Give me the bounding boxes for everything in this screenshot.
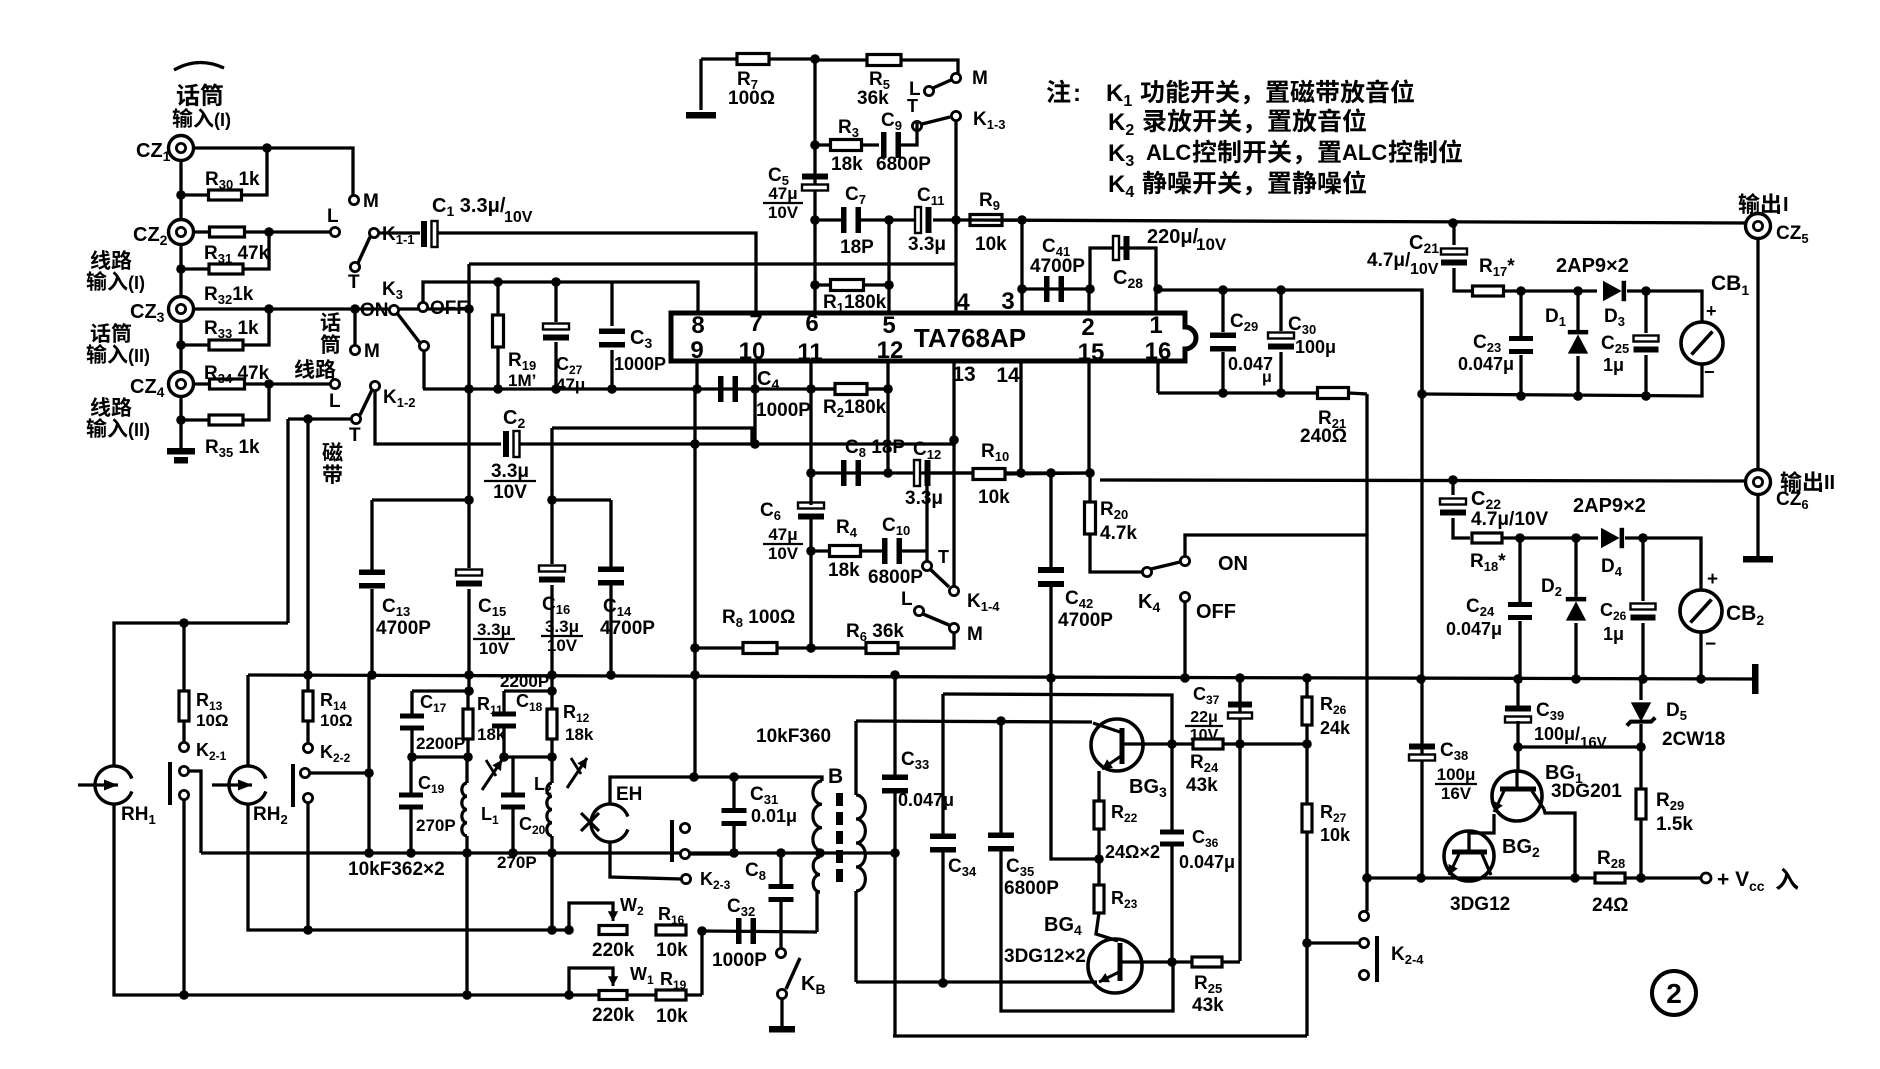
- label R6: [846, 621, 904, 644]
- svg-text:3: 3: [1001, 288, 1014, 315]
- svg-text:10V: 10V: [493, 482, 527, 503]
- wire C39 line: [1518, 745, 1641, 748]
- svg-text:R8 100Ω: R8 100Ω: [722, 607, 795, 630]
- wire BG4 emitter: [856, 980, 1097, 983]
- note line2: [1108, 108, 1366, 139]
- label mic input II: [87, 323, 150, 366]
- svg-text:1000P: 1000P: [614, 354, 666, 374]
- capacitor C23: [1509, 291, 1533, 396]
- resistor R9: [956, 215, 1022, 226]
- svg-text:10kF362×2: 10kF362×2: [348, 859, 445, 880]
- switch K2-1: [170, 742, 189, 805]
- wire pin13: [952, 361, 955, 591]
- wire: [699, 59, 702, 110]
- svg-text:OFF: OFF: [1196, 601, 1236, 623]
- svg-text:(II): (II): [128, 420, 150, 440]
- svg-text:14: 14: [996, 364, 1020, 387]
- svg-text:R2180k: R2180k: [823, 397, 887, 420]
- svg-text:4.7μ/: 4.7μ/: [1367, 250, 1411, 271]
- capacitor C34: [930, 694, 956, 983]
- switch KB: [776, 948, 800, 998]
- label CZ6: [1776, 489, 1809, 512]
- resistor R10: [930, 469, 1089, 480]
- resistor R11: [463, 691, 473, 757]
- wire 290 line: [1156, 290, 1422, 394]
- diode D3: [1521, 281, 1646, 301]
- node: [890, 670, 1312, 683]
- svg-text:1: 1: [1149, 312, 1162, 339]
- label CB1: [1711, 272, 1749, 298]
- note line4: [1108, 170, 1366, 201]
- decoration arc: [174, 62, 224, 70]
- resistor R27: [1302, 744, 1312, 943]
- node: [547, 686, 557, 696]
- svg-text:36k: 36k: [857, 88, 889, 109]
- node: [806, 546, 816, 556]
- svg-text:T: T: [348, 272, 360, 293]
- node: [364, 768, 374, 778]
- svg-text:(I): (I): [128, 273, 145, 293]
- resistor R13: [179, 623, 189, 742]
- label C16: [542, 594, 570, 617]
- label OFF: [430, 298, 468, 319]
- connector CZ3: [169, 297, 194, 322]
- label CZ5: [1776, 223, 1809, 246]
- node: [949, 435, 959, 445]
- label C12: [905, 439, 943, 509]
- capacitor C13: [359, 500, 385, 675]
- label T: [938, 547, 949, 567]
- label M: [972, 68, 988, 89]
- label C11: [908, 185, 946, 255]
- erase mark: [581, 813, 599, 831]
- label 270P b: [497, 853, 537, 872]
- svg-text:3.3μ: 3.3μ: [477, 620, 511, 639]
- wire cell1 mid: [412, 755, 468, 758]
- capacitor C4: [718, 376, 738, 402]
- svg-text:10k: 10k: [975, 234, 1007, 255]
- svg-text:220k: 220k: [592, 940, 635, 961]
- node: [303, 670, 700, 680]
- svg-text:2200P: 2200P: [500, 672, 549, 691]
- wire E: [423, 387, 890, 390]
- node: [303, 414, 313, 424]
- node: [547, 495, 557, 505]
- label mic input I: [173, 83, 231, 130]
- svg-text:2: 2: [1081, 314, 1094, 341]
- label C5 value: [763, 184, 803, 222]
- label C24: [1446, 596, 1502, 639]
- resistor R17: [1473, 286, 1522, 296]
- svg-text:(II): (II): [128, 346, 150, 366]
- label C13: [376, 596, 431, 639]
- label R13: [196, 690, 229, 730]
- inductor L2: [547, 757, 552, 853]
- label K3: [382, 279, 403, 302]
- node: [810, 215, 820, 225]
- label R23: [1111, 888, 1138, 911]
- node: [464, 304, 474, 314]
- node: [551, 277, 561, 394]
- capacitor C24: [1508, 538, 1532, 683]
- node: [750, 439, 760, 449]
- label 3DG12x2: [1004, 946, 1086, 967]
- wire BG3 collector: [1143, 742, 1172, 745]
- resistor R25: [1172, 957, 1240, 967]
- svg-text:10: 10: [739, 338, 766, 365]
- svg-text:9: 9: [690, 337, 703, 364]
- capacitor C37: [1228, 702, 1252, 719]
- wire cell2 mid: [504, 755, 552, 758]
- label C17 value: [416, 734, 465, 753]
- node: [1218, 285, 1228, 398]
- capacitor C6: [798, 473, 824, 551]
- node: [1276, 285, 1286, 398]
- wire: [1643, 538, 1701, 590]
- wire: [1183, 602, 1186, 678]
- label K2-3: [700, 869, 731, 892]
- capacitor C33: [882, 675, 908, 853]
- label R10: [978, 441, 1010, 508]
- node: [697, 926, 707, 936]
- transformer core: [836, 793, 843, 882]
- label 2AP9x2: [1556, 255, 1629, 277]
- wire BG4 collector: [1141, 960, 1172, 963]
- label ON: [1218, 553, 1248, 575]
- pin 6: [805, 310, 818, 337]
- label line input II: [87, 397, 150, 440]
- connector CZ1: [169, 136, 194, 161]
- switch K1-3: [912, 111, 960, 130]
- wire: [288, 417, 351, 420]
- switch K3: [389, 302, 428, 350]
- resistor R24: [1172, 739, 1240, 749]
- node: [406, 848, 472, 858]
- label C32: [712, 896, 767, 971]
- potentiometer W2: [569, 903, 627, 935]
- svg-text:240Ω: 240Ω: [1300, 426, 1347, 447]
- capacitor C12: [914, 460, 931, 486]
- label out2: [1781, 471, 1835, 494]
- label C16 value: [541, 617, 583, 655]
- wire: [193, 148, 353, 195]
- label D1: [1545, 306, 1566, 329]
- svg-text:18k: 18k: [828, 560, 860, 581]
- svg-text:(I): (I): [214, 110, 231, 130]
- node: [547, 925, 557, 935]
- node: [1302, 938, 1312, 948]
- label D3: [1604, 306, 1625, 329]
- svg-text:10V: 10V: [479, 639, 510, 658]
- label R30: [205, 169, 260, 192]
- label L: [909, 79, 921, 100]
- wire: [1238, 744, 1241, 961]
- connector CZ4: [169, 372, 194, 397]
- capacitor C8b: [841, 460, 861, 486]
- node: [264, 304, 274, 314]
- svg-text:2200P: 2200P: [416, 734, 465, 753]
- svg-text:18k: 18k: [565, 725, 594, 744]
- wire D: [201, 851, 895, 854]
- resistor R16: [656, 925, 686, 935]
- capacitor C9: [881, 122, 917, 158]
- wire bottom: [893, 1034, 1307, 1037]
- label K1-4: [967, 591, 1000, 614]
- label tape: [322, 442, 342, 484]
- svg-text:10V: 10V: [768, 544, 799, 563]
- wire pin9: [695, 361, 698, 389]
- ground: [1743, 556, 1773, 563]
- label R12: [563, 702, 594, 744]
- wire pin11: [809, 361, 812, 473]
- label plus: [1707, 569, 1718, 590]
- svg-text:1000P: 1000P: [712, 950, 767, 971]
- node: [729, 848, 739, 858]
- label M2: [364, 341, 380, 362]
- wire pin3 col: [1020, 220, 1023, 313]
- ground: [167, 448, 195, 464]
- transformer B top left: [813, 781, 822, 851]
- label W1 value: [592, 1005, 635, 1026]
- wire: [1699, 632, 1702, 679]
- wire cell2 top: [504, 689, 554, 692]
- node: [1094, 854, 1104, 864]
- wire R8R6 line: [695, 633, 954, 648]
- resistor R31: [210, 227, 245, 237]
- svg-text:0.01μ: 0.01μ: [751, 806, 797, 826]
- node: [1167, 739, 1177, 749]
- diode D1: [1568, 291, 1588, 396]
- svg-text:L: L: [329, 391, 341, 412]
- svg-text:−: −: [1705, 634, 1716, 655]
- label C22: [1471, 488, 1501, 512]
- label K1-2: [383, 387, 416, 410]
- svg-text:220μ/: 220μ/: [1147, 226, 1199, 248]
- pin 12: [877, 337, 904, 364]
- svg-text:10k: 10k: [656, 1006, 688, 1027]
- wire: [954, 121, 957, 313]
- label C21: [1409, 232, 1439, 256]
- svg-text:15: 15: [1078, 339, 1105, 366]
- label R28: [1592, 848, 1628, 916]
- label L2: [534, 774, 552, 797]
- resistor R20: [1085, 473, 1143, 572]
- node: [1167, 957, 1177, 967]
- label W2: [620, 895, 644, 918]
- svg-text:10Ω: 10Ω: [320, 711, 353, 730]
- node: [407, 752, 473, 762]
- svg-text:T: T: [349, 425, 361, 446]
- svg-text:M: M: [363, 191, 379, 212]
- pin 8: [691, 312, 704, 339]
- node: [1573, 286, 1651, 296]
- svg-text:T: T: [938, 547, 949, 567]
- svg-text:1.5k: 1.5k: [1656, 814, 1693, 835]
- label C15: [478, 596, 506, 619]
- capacitor C32: [736, 918, 756, 944]
- svg-text:1M’: 1M’: [508, 371, 536, 390]
- node: [690, 439, 700, 449]
- node: [810, 280, 894, 290]
- svg-text:12: 12: [877, 337, 904, 364]
- label C15 value: [473, 620, 515, 658]
- label C41: [1030, 236, 1085, 277]
- pin 3: [1001, 288, 1014, 315]
- node: [508, 848, 557, 858]
- resistor R5: [815, 55, 958, 74]
- label C3: [614, 327, 666, 374]
- label C27: [556, 354, 585, 394]
- node: [1016, 468, 1095, 478]
- node: [810, 140, 820, 150]
- wire: [700, 931, 703, 995]
- capacitor C1: [379, 221, 756, 313]
- label L: [327, 206, 339, 227]
- svg-text:100μ: 100μ: [1437, 765, 1476, 784]
- label C26: [1600, 600, 1627, 644]
- wire: [189, 771, 201, 853]
- resistor R19: [493, 282, 504, 389]
- label 220u: [1147, 226, 1227, 254]
- transistor BG1: [1492, 771, 1544, 821]
- capacitor C21: [1441, 223, 1472, 291]
- wire: [179, 148, 182, 448]
- label OFF: [1196, 601, 1236, 623]
- svg-text:270P: 270P: [416, 816, 456, 835]
- resistor R23: [1094, 859, 1118, 941]
- node: [264, 379, 274, 389]
- label C38: [1440, 740, 1468, 763]
- pin 4: [956, 289, 970, 316]
- label R18: [1470, 551, 1506, 574]
- svg-text:ON: ON: [1218, 553, 1248, 575]
- svg-text:1μ: 1μ: [1603, 355, 1624, 375]
- node: [1513, 742, 1523, 752]
- svg-text:100μ/: 100μ/: [1534, 724, 1580, 744]
- label 2AP9x2 b: [1573, 495, 1646, 517]
- label L1: [481, 804, 499, 827]
- svg-text:24k: 24k: [1320, 718, 1351, 738]
- label C29: [1230, 311, 1258, 334]
- label C7: [840, 184, 874, 258]
- capacitor C5: [802, 174, 828, 191]
- label ON: [360, 300, 389, 321]
- node: [1416, 674, 1706, 684]
- wire: [286, 419, 289, 623]
- label BG3: [1129, 776, 1167, 800]
- ground: [686, 112, 716, 119]
- wire BG1 collector: [1544, 809, 1575, 878]
- wire K1-4 T riser: [925, 473, 928, 561]
- label R3: [831, 117, 863, 175]
- pin 1: [1149, 312, 1162, 339]
- label M: [363, 191, 379, 212]
- wire RH1 bottom: [114, 804, 702, 995]
- svg-text:10V: 10V: [768, 203, 799, 222]
- node: [690, 643, 700, 653]
- wire: [1756, 494, 1759, 556]
- svg-text:4700P: 4700P: [1058, 610, 1113, 631]
- capacitor C36: [1160, 744, 1184, 962]
- resistor R14: [303, 675, 313, 743]
- resistor R34: [210, 379, 245, 389]
- svg-text:+ V: + V: [1717, 868, 1749, 891]
- label K2-4: [1391, 944, 1424, 967]
- switch K1-4: [922, 561, 958, 595]
- label C9: [876, 110, 931, 175]
- meter CB2: [1680, 590, 1722, 632]
- label TA768AP: [914, 323, 1026, 353]
- label 24ohm: [1105, 842, 1160, 862]
- svg-text:10V: 10V: [1196, 235, 1227, 254]
- label C20: [519, 814, 546, 837]
- pin 9: [690, 337, 703, 364]
- wire: [1365, 535, 1368, 911]
- ground: [1752, 664, 1759, 694]
- svg-text:100μ: 100μ: [1295, 337, 1336, 357]
- capacitor C14: [598, 500, 624, 675]
- wire: [1646, 291, 1702, 322]
- label BG4: [1044, 914, 1082, 938]
- wire 500 line: [372, 498, 471, 501]
- svg-text:7: 7: [749, 310, 762, 337]
- resistor R6: [866, 643, 898, 654]
- svg-text:3.3μ: 3.3μ: [545, 617, 579, 636]
- node: [951, 215, 961, 225]
- resistor R29: [1636, 789, 1646, 878]
- label CZ1: [136, 140, 171, 164]
- svg-text:R34 47k: R34 47k: [204, 363, 270, 386]
- wire 393 line: [1158, 391, 1316, 394]
- label R8: [722, 607, 795, 630]
- transistor BG3: [1091, 719, 1143, 771]
- label L2: [329, 391, 341, 412]
- label 10kF362: [348, 859, 445, 880]
- wire: [422, 351, 425, 389]
- svg-text:C1 3.3μ/: C1 3.3μ/: [432, 195, 506, 219]
- svg-text:10k: 10k: [1320, 825, 1351, 845]
- pin 14: [996, 364, 1020, 387]
- wire Vcc line: [1367, 876, 1700, 879]
- node: [1448, 475, 1458, 485]
- capacitor C2: [503, 431, 520, 457]
- label KB: [801, 973, 826, 997]
- label C36: [1179, 827, 1235, 872]
- wire cell1 top: [412, 689, 469, 692]
- label C2: [503, 407, 525, 431]
- label C5: [768, 165, 789, 188]
- svg-text:10k: 10k: [978, 487, 1010, 508]
- label R32: [204, 284, 254, 307]
- label RH2: [253, 804, 288, 827]
- svg-text:47μ: 47μ: [556, 375, 585, 394]
- node: [815, 848, 825, 858]
- svg-text:13: 13: [952, 363, 975, 386]
- svg-text:3DG12: 3DG12: [1450, 894, 1510, 915]
- node: [176, 264, 186, 274]
- label 2200P top: [500, 672, 549, 691]
- label C2 value: [484, 461, 536, 503]
- label line input I: [87, 250, 145, 293]
- node: [1515, 533, 1525, 543]
- label out1: [1739, 193, 1789, 216]
- label mic vert: [320, 312, 340, 354]
- label K2-2: [320, 742, 351, 765]
- svg-text:10V: 10V: [504, 209, 533, 226]
- label R4: [828, 517, 860, 581]
- label C34: [948, 856, 977, 879]
- label R7: [728, 69, 775, 109]
